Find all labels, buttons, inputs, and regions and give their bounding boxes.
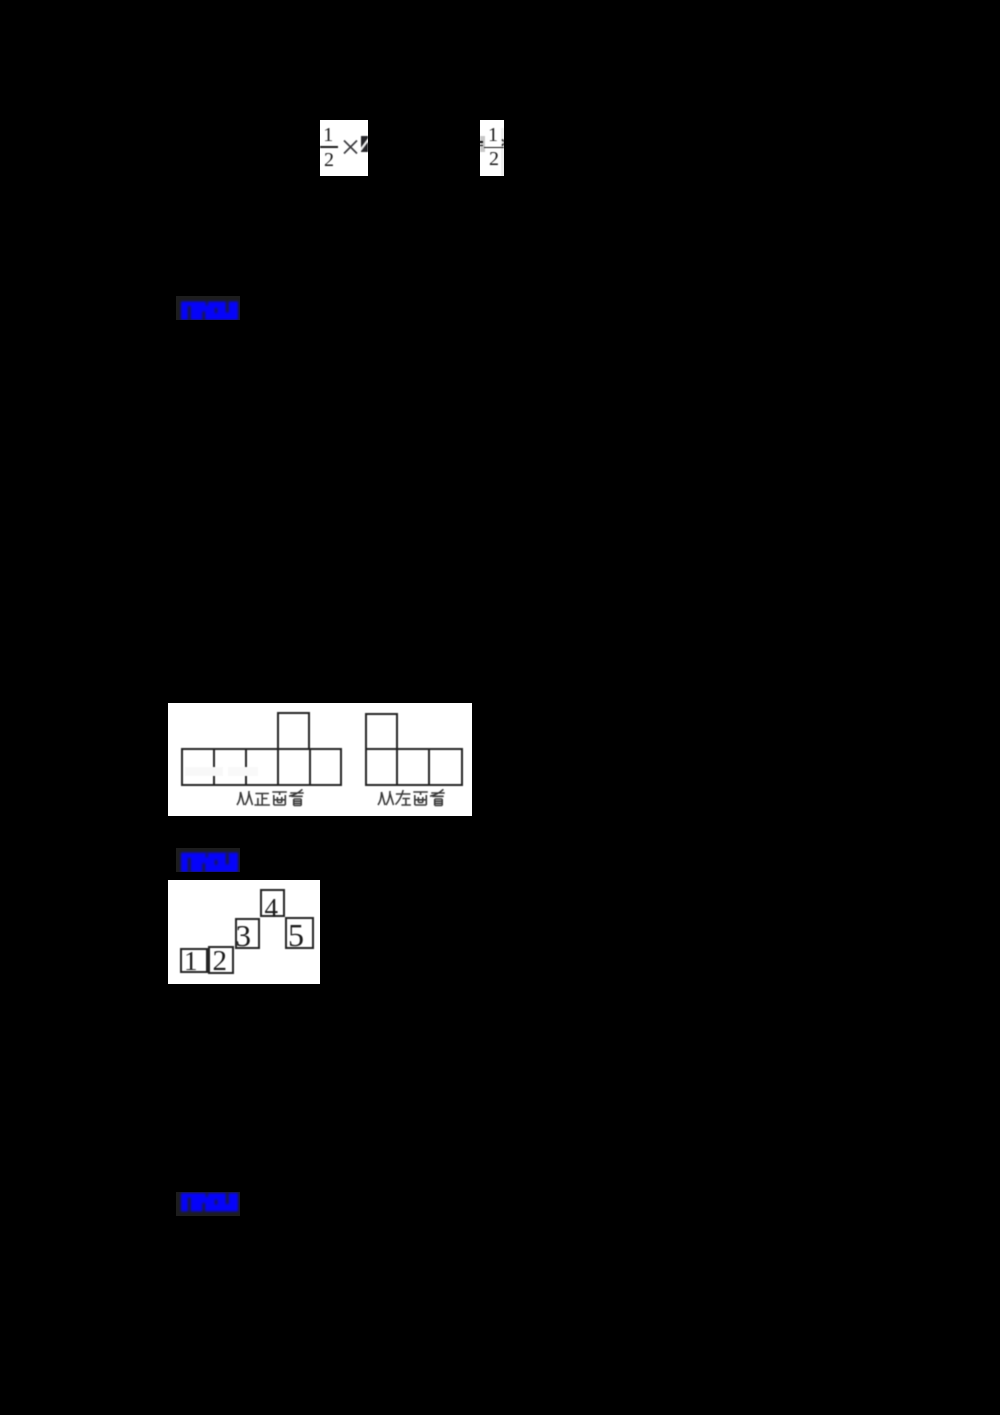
left view: row of 3 (365, 748, 463, 786)
front view: row of 5 (181, 748, 342, 786)
figure 2: numbered squares (168, 880, 320, 984)
front view: top square (277, 712, 310, 750)
figure 1: two views (168, 703, 473, 816)
formula box 1: 1/2 x 4 (320, 120, 368, 176)
formula box 2: = 1/2 x (clipped) (480, 120, 504, 176)
left view: top square (365, 713, 398, 750)
blue label 3 (176, 1192, 240, 1216)
caption: cong zheng mian kan (236, 789, 314, 809)
blue label 2 (176, 848, 240, 872)
faint ghost watermark (185, 767, 223, 776)
blue label 1 (176, 296, 240, 320)
caption: cong zuo mian kan (377, 789, 455, 809)
